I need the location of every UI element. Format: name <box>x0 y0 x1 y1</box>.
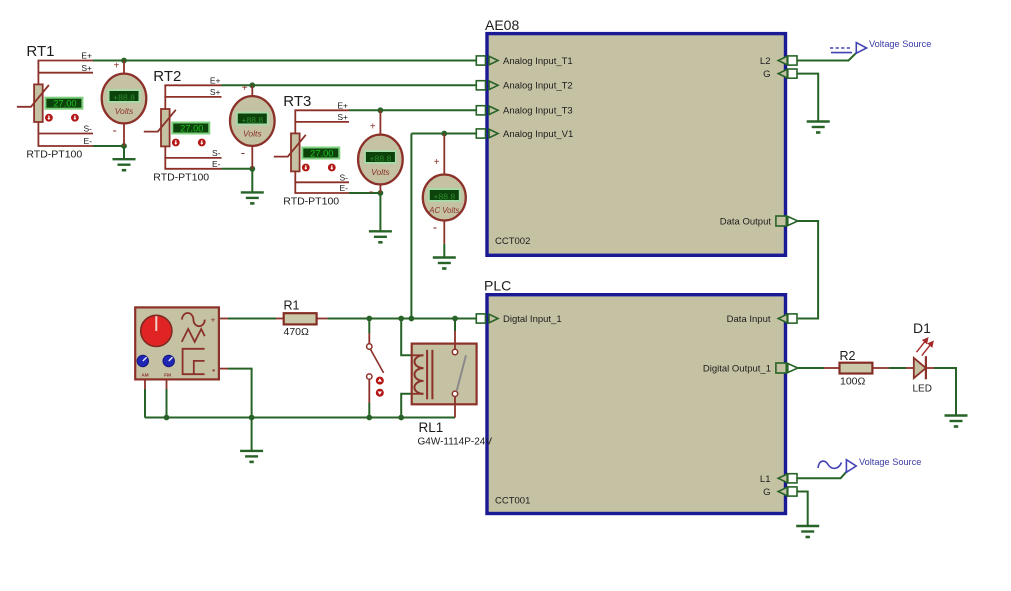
svg-text:L1: L1 <box>760 474 771 485</box>
voltmeter V2 : - pin wire <box>251 145 253 169</box>
svg-text:470Ω: 470Ω <box>284 326 310 338</box>
resistor R2 body <box>840 363 873 374</box>
svg-text:CCT001: CCT001 <box>495 496 530 507</box>
pin PLC Data Input <box>727 314 797 325</box>
RT3 top pin vertical <box>294 110 296 133</box>
node relay contact top <box>452 316 458 322</box>
resistor R2 left pin <box>824 367 840 369</box>
wire RT3 E+ to Analog Input_T3 <box>349 109 476 111</box>
svg-text:+88.8: +88.8 <box>433 191 455 201</box>
voltmeter V1 LCD display <box>109 90 140 102</box>
RT2 pin S- <box>164 157 221 159</box>
voltmeter V3 body <box>358 135 403 185</box>
svg-text:LED: LED <box>913 384 932 395</box>
svg-text:Voltage Source: Voltage Source <box>859 457 921 467</box>
svg-text:D1: D1 <box>913 320 931 336</box>
RT3 pin E- <box>294 192 349 194</box>
pin PLC Digital Output_1 <box>703 363 798 375</box>
svg-text:+88.8: +88.8 <box>241 115 263 125</box>
pin AE08 Analog Input_T1 <box>476 56 572 67</box>
voltmeter V1 : + pin wire <box>123 61 125 75</box>
svg-text:RT2: RT2 <box>153 68 181 85</box>
voltmeter V2 body <box>230 96 275 146</box>
node RT3 E+ / meter V3 + <box>378 107 384 113</box>
resistor R2 right pin <box>872 367 889 369</box>
relay coil stubs <box>412 355 424 394</box>
voltmeter V3 : + pin wire <box>379 110 381 135</box>
svg-text:27.00: 27.00 <box>53 99 76 109</box>
svg-text:Analog Input_T1: Analog Input_T1 <box>503 56 573 67</box>
svg-text:PLC: PLC <box>484 278 511 294</box>
ground under meter V1 <box>113 146 136 170</box>
svg-text:RTD-PT100: RTD-PT100 <box>26 149 82 161</box>
RT3 RTD diagonal symbol <box>274 135 306 157</box>
wire generator to R1 <box>228 318 276 320</box>
AC voltmeter : - pin wire <box>443 220 445 244</box>
AC voltmeter body <box>423 175 466 221</box>
wire AM knob to rail <box>144 389 146 418</box>
RT1 pin S- <box>38 133 94 135</box>
node V1 drop joins R1 output <box>409 316 415 322</box>
svg-text:Analog Input_V1: Analog Input_V1 <box>503 129 573 140</box>
svg-text:RT3: RT3 <box>283 93 311 110</box>
switch toggle button down <box>376 389 384 397</box>
wire LED to ground <box>934 368 956 416</box>
node RT1 E+ / meter V1 + <box>121 58 127 64</box>
function generator FM knob <box>163 355 174 366</box>
node V1 / AC meter + <box>441 131 447 137</box>
resistor R1 left pin <box>276 318 284 320</box>
RT1 pin labels <box>81 51 92 147</box>
relay core lines <box>427 350 432 400</box>
voltmeter V2 : + pin wire <box>251 85 253 97</box>
svg-text:G4W-1114P-24V: G4W-1114P-24V <box>418 437 493 448</box>
waveform icon square <box>183 349 205 374</box>
relay contact bottom circle <box>452 391 457 396</box>
LED D1 cathode bar <box>925 356 927 379</box>
svg-text:Analog Input_T3: Analog Input_T3 <box>503 106 573 117</box>
svg-text:RL1: RL1 <box>419 420 444 435</box>
RT2 top pin vertical <box>164 85 166 109</box>
svg-text:27.00: 27.00 <box>310 149 333 159</box>
RT2 bottom pin vertical <box>164 146 166 168</box>
svg-text:Analog Input_T2: Analog Input_T2 <box>503 81 573 92</box>
svg-text:CCT002: CCT002 <box>495 236 530 247</box>
svg-text:AE08: AE08 <box>485 17 519 33</box>
svg-text:E-: E- <box>340 183 349 193</box>
function generator AM knob <box>137 355 148 366</box>
svg-text:L2: L2 <box>760 56 771 67</box>
wire AE08 G to ground <box>797 74 818 122</box>
switch bottom pin <box>368 379 370 403</box>
generator output pin <box>219 318 228 320</box>
wire relay coil top <box>401 319 412 356</box>
svg-text:Digital Output_1: Digital Output_1 <box>703 364 771 375</box>
wire Analog Input_V1 horizontal <box>411 133 476 135</box>
RT3 bottom pin vertical <box>294 171 296 193</box>
RT1 pin S+ <box>38 72 94 74</box>
RT3 indicator button 1 <box>302 164 310 172</box>
RT2 pin E- <box>164 168 221 170</box>
wire PLC L1 to voltage source <box>797 471 847 479</box>
AM FM labels <box>141 373 171 378</box>
RT1 indicator button 2 <box>71 114 79 122</box>
switch lever <box>370 349 383 373</box>
RT2 indicator button 2 <box>198 139 206 147</box>
wire Digital Output_1 to R2 <box>798 367 824 369</box>
wire FM knob to rail <box>166 389 168 418</box>
RT1 pin E- <box>38 145 94 147</box>
RT2 RTD diagonal symbol <box>144 110 176 132</box>
svg-text:RTD-PT100: RTD-PT100 <box>283 196 339 208</box>
voltmeter V1 body <box>102 74 147 124</box>
svg-text:E-: E- <box>212 159 221 169</box>
RT1 RTD diagonal symbol <box>17 85 49 107</box>
relay coil arcs <box>414 355 423 394</box>
AC voltmeter : + pin wire <box>443 134 445 176</box>
voltmeter V1 polarity marks <box>113 61 120 138</box>
function generator frequency knob <box>141 315 172 346</box>
node relay coil top <box>398 316 404 322</box>
node FM wire on rail <box>164 415 170 421</box>
svg-text:E-: E- <box>84 136 93 146</box>
wire switch top <box>368 319 370 334</box>
AC voltmeter LCD display <box>429 189 460 201</box>
svg-text:-: - <box>241 145 245 160</box>
svg-text:G: G <box>763 69 770 80</box>
LED D1 cathode pin <box>926 367 934 369</box>
wire RT1 E+ to Analog Input_T1 <box>93 60 476 62</box>
wire generator minus drop <box>228 369 252 418</box>
voltmeter V2 LCD display <box>237 113 268 125</box>
wire RT1 E- to meter <box>93 145 124 147</box>
svg-text:+88.8: +88.8 <box>370 153 392 163</box>
switch top contact <box>367 344 372 349</box>
svg-text:Voltage Source: Voltage Source <box>869 39 931 49</box>
svg-text:-: - <box>113 122 117 137</box>
LED D1 light arrows <box>917 338 933 355</box>
pin AE08 L2 <box>760 56 797 67</box>
wire RT2 E+ to Analog Input_T2 <box>222 84 477 86</box>
svg-text:Digtal Input_1: Digtal Input_1 <box>503 314 562 325</box>
DC voltage source symbol (top right) <box>830 43 867 54</box>
wire Data Output to Data Input <box>798 221 818 319</box>
svg-text:27.00: 27.00 <box>180 124 203 134</box>
svg-text:Volts: Volts <box>243 129 262 139</box>
node ground drop on rail <box>249 415 255 421</box>
svg-text:+: + <box>434 157 440 168</box>
node switch bottom on rail <box>366 415 372 421</box>
wire switch bottom <box>368 403 370 418</box>
pin PLC G <box>763 487 797 498</box>
voltmeter V1 : - pin wire <box>123 122 125 146</box>
relay RL1 body <box>412 344 477 405</box>
pin AE08 Analog Input_V1 <box>476 129 573 140</box>
RT2 pin labels <box>210 76 221 170</box>
svg-text:S+: S+ <box>210 87 221 97</box>
svg-text:+: + <box>114 61 120 72</box>
svg-text:AC Volts: AC Volts <box>428 206 459 215</box>
pin PLC L1 <box>760 474 797 485</box>
RT1 pin E+ <box>38 60 94 62</box>
pin PLC Digtal Input_1 <box>476 314 561 325</box>
svg-text:S+: S+ <box>337 112 348 122</box>
ground on bottom rail <box>240 418 263 462</box>
voltmeter V3 LCD display <box>365 151 396 163</box>
svg-text:G: G <box>763 487 770 498</box>
svg-text:-: - <box>369 183 373 198</box>
voltmeter V3 polarity marks <box>369 122 376 199</box>
RT3 LCD display 27.00 <box>302 148 339 159</box>
svg-text:-: - <box>433 220 437 235</box>
LED D1 anode pin <box>906 367 914 369</box>
function generator body <box>135 307 219 379</box>
generator minus pin <box>219 368 228 370</box>
RT1 indicator button 1 <box>45 114 53 122</box>
wire relay coil bottom <box>401 394 412 418</box>
wire AE08 L2 to voltage source <box>797 53 857 61</box>
svg-text:E+: E+ <box>81 51 92 61</box>
svg-text:RT1: RT1 <box>26 43 54 60</box>
svg-text:+: + <box>211 315 216 325</box>
ground under AC volts meter <box>433 244 456 269</box>
RT2 body <box>161 109 170 146</box>
voltmeter V2 polarity marks <box>241 83 248 160</box>
wire RT2 E- to meter <box>222 168 253 170</box>
RT1 top pin vertical <box>37 61 39 85</box>
node RT1 E- / meter V1 - <box>121 143 127 149</box>
generator FM pin <box>166 379 168 389</box>
RT1 bottom pin vertical <box>37 122 39 146</box>
pin AE08 Data Output <box>720 216 798 228</box>
pin AE08 G <box>763 69 797 80</box>
IC block PLC body <box>487 295 786 514</box>
relay contact bottom pin <box>454 396 456 417</box>
switch toggle button up <box>376 377 384 385</box>
svg-text:R2: R2 <box>840 349 856 363</box>
svg-text:S-: S- <box>212 148 221 158</box>
sine voltage source symbol (bottom right) <box>818 460 856 473</box>
svg-text:E+: E+ <box>337 101 348 111</box>
svg-text:100Ω: 100Ω <box>840 376 866 388</box>
AC voltmeter polarity marks <box>433 157 440 235</box>
svg-text:Data Output: Data Output <box>720 217 772 228</box>
svg-text:S+: S+ <box>81 63 92 73</box>
waveform icon sine <box>182 313 205 326</box>
RT2 pin E+ <box>164 84 221 86</box>
RT3 pin S+ <box>294 121 349 123</box>
RT2 pin S+ <box>164 96 221 98</box>
RT1 body <box>34 84 43 122</box>
IC block AE08 body <box>487 34 786 256</box>
wire R2 to LED <box>889 367 906 369</box>
wire V1 node vertical drop <box>410 134 412 319</box>
RT3 pin E+ <box>294 109 349 111</box>
voltmeter V3 : - pin wire <box>379 183 381 193</box>
svg-text:+: + <box>370 122 376 133</box>
node RT2 E- / meter V2 - <box>249 166 255 172</box>
RT1 LCD display 27.00 <box>45 98 82 109</box>
RT3 pin labels <box>337 101 348 194</box>
RT2 indicator button 1 <box>172 139 180 147</box>
generator AM pin <box>144 379 146 389</box>
resistor R1 body <box>284 313 317 324</box>
wire bottom rail <box>145 417 455 419</box>
wire relay contact top <box>454 319 456 332</box>
waveform icon triangle <box>182 329 205 342</box>
svg-text:+: + <box>242 83 248 94</box>
LED D1 triangle <box>914 358 926 378</box>
node RT2 E+ / meter V2 + <box>249 82 255 88</box>
switch bottom contact <box>367 374 372 379</box>
ground under meter V2 <box>241 169 264 204</box>
node RT3 E- / meter V3 - <box>378 190 384 196</box>
svg-text:Volts: Volts <box>371 167 390 177</box>
ground at PLC G pin <box>796 526 819 537</box>
RT3 pin S- <box>294 181 349 183</box>
svg-text:R1: R1 <box>284 299 300 313</box>
relay contact top pin <box>454 331 456 349</box>
svg-text:+88.8: +88.8 <box>113 92 135 102</box>
svg-text:RTD-PT100: RTD-PT100 <box>153 171 209 183</box>
RT2 LCD display 27.00 <box>172 123 209 134</box>
svg-text:FM: FM <box>164 373 171 378</box>
wire PLC G to ground <box>797 492 808 527</box>
ground at LED cathode <box>945 416 968 427</box>
node relay coil bottom on rail <box>398 415 404 421</box>
RT3 indicator button 2 <box>328 164 336 172</box>
switch top pin <box>368 333 370 344</box>
pin AE08 Analog Input_T3 <box>476 106 572 117</box>
pin AE08 Analog Input_T2 <box>476 81 572 92</box>
svg-text:Data Input: Data Input <box>727 314 771 325</box>
wire R1 to Digtal Input_1 <box>327 318 476 320</box>
RT3 body <box>291 133 300 171</box>
ground at AE08 G pin <box>807 122 830 133</box>
svg-text:E+: E+ <box>210 76 221 86</box>
resistor R1 right pin <box>316 318 327 320</box>
svg-text:S-: S- <box>340 173 349 183</box>
relay contact top circle <box>452 349 457 354</box>
svg-text:Volts: Volts <box>115 106 134 116</box>
generator terminal marks <box>211 315 216 372</box>
relay contact lever <box>457 355 466 391</box>
node switch top on R1 output <box>366 316 372 322</box>
svg-text:AM: AM <box>141 373 148 378</box>
svg-text:S-: S- <box>84 124 93 134</box>
wire RT3 E- to meter <box>349 192 380 194</box>
ground under meter V3 <box>369 193 392 242</box>
